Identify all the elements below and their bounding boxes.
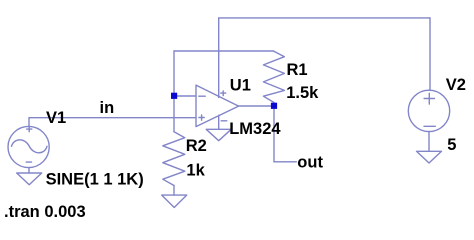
- wire V2 bottom to ground: [428, 132, 430, 152]
- svg-text:5: 5: [447, 136, 456, 154]
- svg-text:R2: R2: [186, 137, 207, 155]
- wire op-amp V+ supply stub: [218, 18, 220, 98]
- wire V2 top drop: [429, 18, 431, 90]
- svg-text:out: out: [297, 154, 323, 172]
- svg-text:V2: V2: [446, 76, 466, 94]
- svg-text:1k: 1k: [186, 162, 205, 180]
- ground (V2): [417, 151, 442, 163]
- wire feedback horizontal: [174, 50, 273, 52]
- svg-text:U1: U1: [230, 76, 251, 94]
- wire op-amp V- supply stub: [218, 115, 220, 129]
- node junction (output): [271, 103, 277, 109]
- wire node in (V1 to op-amp + input): [29, 118, 196, 127]
- ground (V1): [17, 173, 42, 185]
- wire out vertical: [273, 106, 275, 162]
- voltage source V1 (sine): [8, 126, 49, 167]
- wire feedback vertical (inverting node to R2): [173, 51, 175, 132]
- op-amp U1 triangle: [196, 85, 239, 127]
- svg-text:SINE(1 1 1K): SINE(1 1 1K): [46, 171, 144, 189]
- svg-text:LM324: LM324: [229, 120, 281, 138]
- svg-text:in: in: [100, 99, 115, 117]
- voltage source V2 (DC): [408, 90, 449, 131]
- wire inverting input stub: [174, 95, 196, 97]
- ground (op-amp V-): [206, 129, 231, 140]
- svg-text:V1: V1: [46, 109, 66, 127]
- wire V1 bottom to ground: [28, 168, 30, 173]
- wire top rail (V+ to V2): [219, 17, 430, 19]
- resistor R2: [163, 132, 185, 186]
- wire out horizontal: [274, 161, 296, 163]
- node junction (inverting input): [171, 93, 177, 99]
- svg-text:.tran 0.003: .tran 0.003: [4, 203, 86, 221]
- wire R2 bottom to ground: [173, 186, 175, 196]
- resistor R1: [263, 51, 284, 106]
- wire op-amp output: [239, 105, 274, 107]
- ground (R2): [162, 195, 187, 207]
- svg-text:1.5k: 1.5k: [286, 84, 319, 102]
- svg-text:R1: R1: [287, 61, 308, 79]
